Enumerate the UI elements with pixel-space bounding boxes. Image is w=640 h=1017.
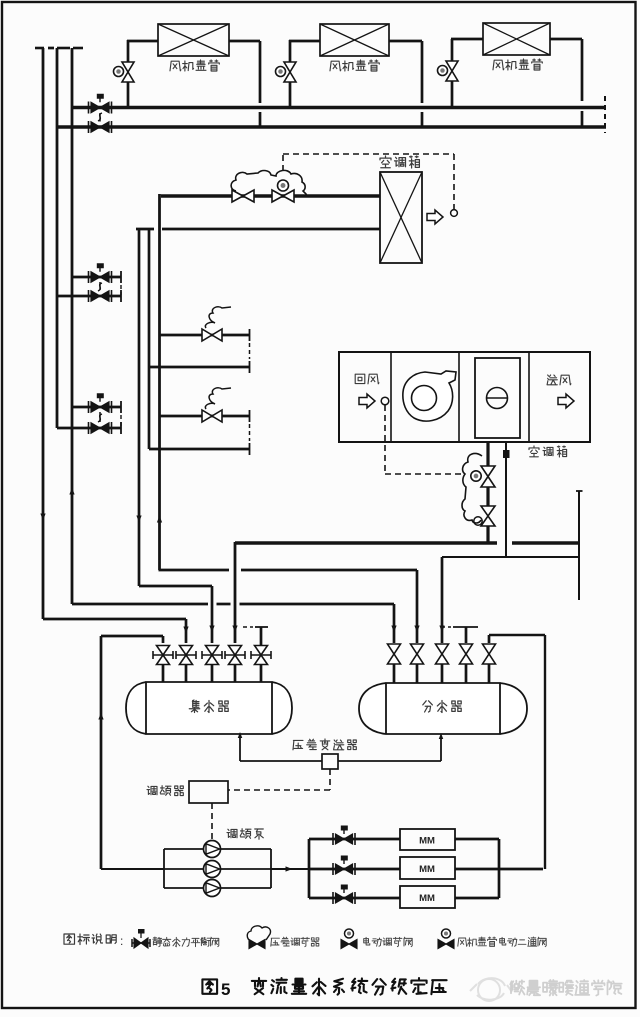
svg-text:5: 5 xyxy=(221,980,230,999)
chiller row 3 pipe xyxy=(309,897,400,900)
legend text balance valve xyxy=(153,937,219,947)
AHU section divider 2 xyxy=(458,352,460,442)
riser top caps xyxy=(35,47,44,50)
pump discharge riser X101 xyxy=(100,636,103,869)
run Y619 riser R1 to collector xyxy=(43,618,186,621)
branch B2 pipe xyxy=(149,366,249,369)
pipe drop X417 xyxy=(416,570,419,643)
label supply air xyxy=(547,375,571,385)
pipe drop X235 to collector xyxy=(234,542,237,643)
spare stub X466 xyxy=(453,626,478,628)
collector tank xyxy=(126,682,292,734)
fan coil FC1 box xyxy=(158,24,229,56)
svg-text::: : xyxy=(120,934,123,948)
balance valve S3 xyxy=(88,401,90,413)
flow arrow X394 xyxy=(391,626,396,633)
AHU1 supply pipe xyxy=(161,194,380,197)
fan coil FC3 box xyxy=(483,23,550,55)
run Y586 to collector xyxy=(139,585,212,588)
balance valve S4 xyxy=(88,422,90,434)
label VFD xyxy=(147,786,183,796)
branch B3 pipe xyxy=(159,415,249,418)
dashed main end riser xyxy=(604,96,606,133)
svg-text:MM: MM xyxy=(419,836,435,847)
label FC2 xyxy=(330,60,379,71)
pipe drop X163 xyxy=(162,636,165,643)
watermark logo xyxy=(470,978,512,1001)
air handler box AHU1 xyxy=(380,172,422,263)
flow arrow X442 xyxy=(439,626,444,633)
air handling unit box xyxy=(339,352,590,442)
figure title xyxy=(202,979,217,993)
two-way valve FC3 xyxy=(446,61,458,71)
legend symbol fc valve xyxy=(438,940,446,949)
collector valve CV4 xyxy=(229,646,242,656)
watermark text xyxy=(510,980,621,996)
valve VA2 xyxy=(481,506,495,516)
fan coil FC3 supply pipe xyxy=(451,81,454,107)
fan coil FC2 box xyxy=(320,24,389,56)
fan coil FC2 supply pipe xyxy=(289,82,292,107)
collector valve CV5 xyxy=(255,646,268,656)
return air sensor node xyxy=(381,397,389,405)
chiller row 2 pipe xyxy=(309,868,400,871)
label FC3 xyxy=(493,59,542,70)
stub S3 pipe xyxy=(72,406,121,409)
fan coil FC1 supply pipe xyxy=(127,82,130,107)
fan coil FC3 return pipe xyxy=(550,38,582,41)
label AHU1 xyxy=(380,156,419,168)
distributor valve DV2 xyxy=(411,644,424,654)
spare stub X261 on collector xyxy=(255,626,268,628)
flow arrow on R1 xyxy=(40,514,45,521)
chiller box 3 xyxy=(400,886,455,908)
pressure transmitter box xyxy=(322,754,338,769)
distributor valve DV1 xyxy=(388,644,401,654)
motor valve VA1 xyxy=(481,466,495,477)
flow arrow on R4 xyxy=(136,516,141,523)
VFD box xyxy=(189,781,228,803)
dashed signal transmitter xyxy=(329,769,331,790)
arrow into collector xyxy=(238,732,243,738)
pump P2 xyxy=(204,861,221,878)
fan coil FC2 return pipe xyxy=(389,40,422,43)
supply main M1 xyxy=(72,106,604,109)
balance valve pair on mains xyxy=(88,102,90,114)
motor control valve B1 xyxy=(202,329,212,341)
valve stem link S1-S2 xyxy=(99,282,101,290)
chiller header left xyxy=(308,839,311,898)
run Y570 to distributor xyxy=(159,569,230,572)
coil damper symbol xyxy=(487,388,508,409)
motor control valve B3 xyxy=(202,410,212,422)
label pump xyxy=(227,829,263,840)
legend text motor valve xyxy=(364,937,413,946)
AHU chilled water pipe A xyxy=(486,442,489,466)
flow arrow pump discharge xyxy=(286,866,293,871)
pressure tap node xyxy=(451,210,458,217)
legend symbol motor valve xyxy=(341,940,349,949)
dashed control line from sensor xyxy=(384,405,386,474)
motor valve V2 xyxy=(272,190,283,202)
return riser caps bracket xyxy=(136,228,154,231)
pipe run Y557 xyxy=(442,556,578,558)
riser R3 xyxy=(71,48,74,604)
riser R2 xyxy=(56,48,59,428)
dashed link B3-B4 xyxy=(249,424,251,441)
stub S2 pipe xyxy=(57,295,121,298)
collector valve CV3 xyxy=(206,646,219,656)
legend text fc valve xyxy=(458,937,546,947)
collector valve CV1 xyxy=(157,646,170,656)
riser R1 xyxy=(42,48,45,619)
legend text PD regulator xyxy=(271,937,319,946)
flow arrow on R3 xyxy=(69,488,74,495)
legend title xyxy=(64,934,116,945)
branch B1 pipe xyxy=(159,334,249,337)
supply air arrow AHU1 xyxy=(427,210,443,224)
pump suction main xyxy=(101,868,164,870)
AHU1 return pipe xyxy=(162,228,380,231)
two-way valve FC1 xyxy=(122,62,134,72)
legend symbol balance valve xyxy=(132,942,150,944)
stub S4 pipe xyxy=(57,427,121,430)
collector valve CV2 xyxy=(180,646,193,656)
distributor valve DV3 xyxy=(436,644,449,654)
AHU section divider 3 xyxy=(528,352,530,442)
shutoff valve V1 xyxy=(232,190,243,202)
distributor tank xyxy=(359,683,527,734)
balance valve S1 xyxy=(88,271,90,283)
supply air arrow xyxy=(558,394,574,408)
riser R4 xyxy=(138,229,141,586)
pressure differential regulator PD1 xyxy=(231,170,307,196)
chiller box 2 xyxy=(400,857,455,879)
fan scroll xyxy=(403,371,456,421)
arrow into distributor xyxy=(439,733,444,739)
pump manifold xyxy=(164,848,271,850)
dashed signal VFD to pump xyxy=(211,803,213,839)
balance valve S2 xyxy=(88,290,90,302)
pump P3 xyxy=(204,880,221,897)
pipe run Y543 xyxy=(235,541,497,544)
svg-text:MM: MM xyxy=(419,864,435,875)
chiller row 1 pipe xyxy=(309,838,400,841)
return air arrow xyxy=(359,394,375,408)
balance valve CH2 xyxy=(332,863,334,875)
label pressure transmitter xyxy=(293,739,356,750)
legend symbol PD regulator xyxy=(249,940,257,949)
distributor valve DV5 xyxy=(483,644,496,654)
pump P1 xyxy=(204,841,221,858)
flow arrow X101 xyxy=(98,713,103,720)
distributor feed X489 long riser xyxy=(488,635,491,643)
flow arrow X417 xyxy=(414,626,419,633)
AHU section divider 1 xyxy=(390,352,392,442)
pipe drop X186 xyxy=(185,619,188,643)
run Y636 pump line to collector xyxy=(101,635,163,638)
valve stem link S3-S4 xyxy=(99,412,101,422)
chiller box 1 xyxy=(400,829,455,850)
label distributor xyxy=(423,701,461,713)
AHU chilled water pipe B xyxy=(505,442,507,557)
label return air xyxy=(355,374,379,384)
dashed link B1-B2 xyxy=(249,343,251,359)
coil section xyxy=(475,358,520,438)
flow arrow on supply riser R6 xyxy=(157,516,162,523)
flow arrow X186 xyxy=(183,627,188,634)
transmitter impulse line xyxy=(239,736,241,761)
flow arrow X235 xyxy=(232,626,237,633)
riser R5 xyxy=(148,229,151,449)
balance valve CH1 xyxy=(332,833,334,845)
sensor tap on pipe B xyxy=(503,450,510,458)
dashed link S1-S2 ends xyxy=(120,285,122,295)
pipe drop X212 xyxy=(211,586,214,643)
balance valve CH3 xyxy=(332,892,334,904)
drop X442 from Y557 xyxy=(441,557,444,643)
dashed link S3-S4 ends xyxy=(120,415,122,426)
label FC1 xyxy=(170,60,219,71)
chiller header right xyxy=(498,839,501,898)
two-way valve FC2 xyxy=(284,62,296,72)
label collector xyxy=(189,700,228,713)
svg-text:MM: MM xyxy=(419,893,435,904)
branch B4 pipe xyxy=(149,448,249,451)
run Y604 riser R3 to distributor xyxy=(72,603,208,606)
dashed sensing line PD1 xyxy=(282,154,284,171)
return main M2 xyxy=(57,125,606,128)
distributor valve DV4 xyxy=(460,644,473,654)
pipe drop X394 xyxy=(393,604,396,643)
pressure differential regulator PD2 xyxy=(462,454,482,523)
stub riser X579 xyxy=(578,491,580,600)
flow arrow X212 xyxy=(209,626,214,633)
fan coil FC1 return pipe xyxy=(229,40,260,43)
label AHU bottom xyxy=(529,446,567,457)
stub S1 pipe xyxy=(72,276,121,279)
